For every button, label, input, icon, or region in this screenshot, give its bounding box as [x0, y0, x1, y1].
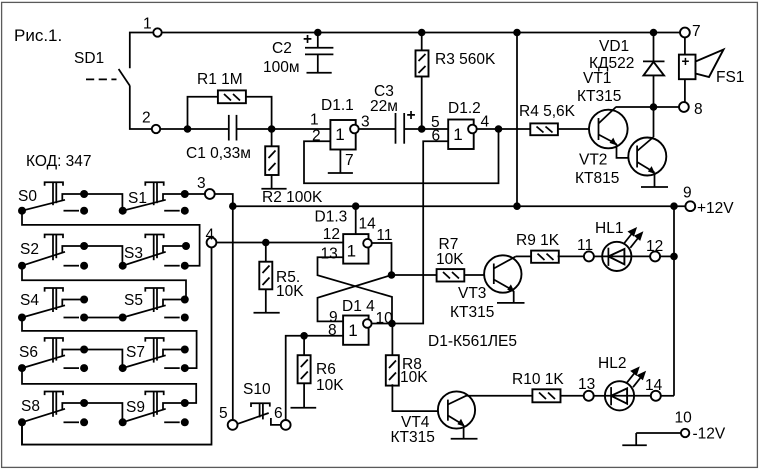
ground VT2 emitter: [641, 173, 668, 188]
wire row4 chain from S6 common: [22, 368, 196, 403]
switch S5: [119, 288, 189, 322]
resistor R10: [466, 371, 584, 402]
svg-text:1: 1: [143, 16, 152, 33]
wire feedback node4 to D1.1 pin2: [304, 129, 499, 183]
svg-text:4: 4: [206, 227, 215, 244]
resistor R3: [416, 29, 496, 129]
svg-text:VT1: VT1: [583, 70, 611, 87]
switch S3: [119, 235, 190, 270]
svg-text:1: 1: [348, 321, 357, 340]
switch S0: [18, 182, 88, 215]
svg-text:R1 1M: R1 1M: [197, 71, 243, 88]
svg-text:Рис.1.: Рис.1.: [14, 26, 62, 45]
wire top rail node1 to node7: [162, 32, 681, 34]
wire D1.2 output node 4 line to R4: [476, 128, 530, 130]
wire D1.1 output to C3: [358, 128, 395, 130]
wire D1.3 output pin11 down to R7 node: [371, 243, 391, 275]
svg-text:КТ815: КТ815: [575, 170, 619, 187]
svg-text:11: 11: [577, 237, 593, 254]
ground pin7 of D1.1: [328, 150, 354, 174]
svg-text:12: 12: [323, 226, 340, 243]
wire D1.2 pin6 to trigger output: [392, 141, 448, 323]
node 2: [142, 110, 160, 134]
svg-text:7: 7: [345, 152, 354, 169]
svg-text:10K: 10K: [316, 377, 344, 394]
switch S7: [119, 338, 189, 372]
resistor R8: [386, 324, 448, 412]
svg-text:9: 9: [683, 185, 692, 202]
transistor VT2: [575, 137, 666, 187]
wire C1 right plate to D1.1 pin1: [237, 128, 331, 130]
op-gate D1.1: [310, 97, 370, 150]
capacitor C3: [370, 83, 416, 144]
wire row5 chain from S8 common: [22, 422, 212, 444]
svg-text:D1.2: D1.2: [448, 100, 481, 117]
svg-text:14: 14: [645, 377, 663, 394]
svg-text:R2 100K: R2 100K: [262, 189, 323, 206]
node junction left of C1: [184, 125, 192, 133]
svg-text:10K: 10K: [400, 369, 428, 386]
wire row3 chain from S4 common: [22, 318, 197, 369]
wire D1.3 pin14 to bus: [355, 206, 357, 234]
wire row1 chain from S0 common: [22, 211, 200, 266]
resistor R5: [254, 239, 305, 313]
svg-text:VT2: VT2: [579, 152, 607, 169]
svg-text:S2: S2: [20, 241, 39, 258]
wire S6 to S7 link: [84, 350, 122, 369]
switch S9: [119, 392, 189, 427]
svg-text:R3 560K: R3 560K: [435, 51, 496, 68]
ground VT3 emitter: [497, 291, 525, 303]
svg-text:14: 14: [359, 216, 377, 233]
svg-text:R6: R6: [316, 361, 336, 378]
wire bank loop node4 to S8 common: [22, 247, 212, 445]
switch S6: [18, 338, 88, 372]
svg-text:+: +: [682, 54, 690, 69]
wire node2 line to C1 left plate: [161, 128, 229, 130]
node 8: [679, 101, 703, 118]
svg-text:S7: S7: [126, 344, 145, 361]
svg-text:КТ315: КТ315: [391, 429, 435, 446]
switch S1: [119, 182, 189, 215]
wire node3 to S1 upper contact: [185, 193, 205, 195]
svg-text:100м: 100м: [263, 59, 300, 76]
svg-text:КОД: 347: КОД: 347: [26, 153, 92, 170]
wire S0 to S1 link: [84, 194, 122, 211]
svg-text:FS1: FS1: [716, 69, 744, 86]
svg-text:10K: 10K: [436, 251, 464, 268]
wire node1 to SD1 top contact: [130, 33, 154, 69]
node 9 +12V: [683, 185, 734, 218]
svg-text:+12V: +12V: [697, 200, 734, 217]
svg-text:13: 13: [578, 376, 595, 393]
node 3: [197, 175, 215, 199]
capacitor C2: [263, 29, 333, 76]
svg-text:12: 12: [646, 238, 663, 255]
switch S8: [18, 392, 88, 427]
resistor R2: [261, 129, 323, 206]
svg-text:HL2: HL2: [598, 355, 626, 372]
svg-text:S0: S0: [18, 188, 37, 205]
wire C3 to D1.2 pin5: [404, 128, 448, 130]
wire node12 to +12V riser: [660, 255, 674, 257]
switch S10: [237, 381, 281, 425]
svg-text:HL1: HL1: [595, 220, 623, 237]
resistor R4: [519, 103, 576, 135]
node 12: [646, 238, 663, 261]
wire node6 to D1.4 pin8: [286, 336, 343, 421]
svg-text:S3: S3: [124, 245, 143, 262]
svg-text:S5: S5: [124, 292, 143, 309]
transistor VT1: [577, 70, 628, 148]
op-gate D1.2: [431, 100, 490, 149]
transistor VT3: [450, 255, 522, 321]
wire cross-coupling D1.3 pin13 to pin10 node: [318, 257, 393, 323]
svg-text:10K: 10K: [276, 283, 304, 300]
svg-text:S6: S6: [19, 344, 38, 361]
svg-text:КТ315: КТ315: [577, 88, 621, 105]
wire S2 to S3 link: [84, 246, 122, 266]
wire VT1 emitter to VT2 base: [617, 144, 638, 158]
switch S4: [18, 288, 88, 322]
svg-text:7: 7: [692, 23, 701, 40]
wire node3 to bus and down to node5: [214, 194, 232, 420]
svg-text:3: 3: [197, 175, 206, 192]
wire cross-coupling pin11 to D1.4 pin9: [318, 275, 392, 321]
op-gate D1.4: [328, 298, 393, 345]
speaker FS1: [679, 37, 745, 102]
resistor R9: [516, 232, 584, 263]
svg-text:6: 6: [274, 405, 283, 422]
switch SD1: [74, 50, 130, 86]
svg-text:8: 8: [328, 322, 337, 339]
node 5: [219, 405, 238, 430]
transistor VT4: [391, 391, 476, 446]
wire row2 chain from S2 common: [22, 266, 186, 300]
svg-text:4: 4: [481, 114, 490, 131]
svg-text:S8: S8: [21, 398, 40, 415]
svg-text:S9: S9: [126, 399, 145, 416]
svg-text:C1 0,33м: C1 0,33м: [186, 145, 251, 162]
svg-text:R4 5,6K: R4 5,6K: [519, 103, 576, 120]
wire D1.4 output pin10: [371, 323, 392, 325]
svg-text:2: 2: [142, 110, 151, 127]
svg-text:5: 5: [219, 405, 228, 422]
wire VT2 collector up to node8 line: [653, 107, 655, 137]
op-gate D1.3: [315, 209, 393, 264]
svg-text:S10: S10: [243, 381, 271, 398]
node 1: [143, 16, 162, 37]
svg-text:КТ315: КТ315: [450, 304, 494, 321]
svg-text:VT3: VT3: [458, 285, 486, 302]
wire node14 to riser: [660, 395, 674, 397]
wire +12V riser down to HL2: [673, 206, 675, 396]
svg-text:8: 8: [694, 101, 703, 118]
node 7: [680, 23, 701, 40]
svg-text:SD1: SD1: [74, 50, 104, 67]
capacitor C1: [186, 115, 251, 162]
riser top rail to bus: [516, 33, 518, 207]
svg-text:+: +: [303, 31, 312, 48]
svg-text:D1.3: D1.3: [315, 209, 348, 226]
svg-text:D1-К561ЛЕ5: D1-К561ЛЕ5: [428, 333, 517, 350]
svg-text:1: 1: [310, 112, 319, 129]
LED HL1: [594, 220, 651, 271]
svg-text:C2: C2: [272, 40, 292, 57]
svg-text:S4: S4: [20, 292, 39, 309]
switch S2: [18, 235, 88, 270]
diode VD1: [589, 29, 665, 107]
wire SD1 to node2: [130, 86, 152, 129]
node 13: [578, 376, 595, 401]
wire S8 to S9 link: [84, 403, 122, 422]
svg-text:3: 3: [361, 114, 370, 131]
ground VT4 emitter: [451, 425, 478, 439]
LED HL2: [594, 355, 651, 410]
svg-text:-12V: -12V: [693, 426, 726, 443]
svg-text:13: 13: [321, 245, 338, 262]
svg-text:D1 4: D1 4: [342, 298, 375, 315]
svg-text:+: +: [407, 107, 416, 124]
svg-text:10: 10: [675, 410, 693, 427]
svg-text:КД522: КД522: [589, 55, 634, 72]
resistor R7: [392, 236, 495, 282]
svg-text:D1.1: D1.1: [321, 97, 354, 114]
node 11: [577, 237, 594, 261]
svg-text:11: 11: [376, 227, 392, 244]
wire R4 to VT1 base: [558, 128, 599, 130]
resistor R6: [291, 332, 345, 408]
svg-text:VD1: VD1: [599, 38, 629, 55]
svg-text:R10 1K: R10 1K: [512, 371, 564, 388]
terminal -12V node 10: [622, 410, 726, 446]
svg-text:1: 1: [335, 125, 344, 144]
wire S4 to S5 link: [84, 317, 123, 319]
wire VT1 collector to node 8 line: [616, 106, 680, 108]
svg-text:22м: 22м: [370, 98, 398, 115]
node 6: [274, 405, 291, 430]
node 14: [645, 377, 663, 401]
wire node4 line to D1.3 pin12: [216, 242, 343, 244]
svg-text:1: 1: [453, 125, 462, 144]
node 4: [206, 227, 217, 248]
svg-text:R9 1K: R9 1K: [516, 232, 560, 249]
resistor R1: [188, 71, 272, 129]
wire +12V bus: [233, 205, 686, 207]
node junction right of C1: [268, 125, 276, 133]
svg-text:1: 1: [347, 242, 356, 261]
svg-text:S1: S1: [128, 190, 147, 207]
